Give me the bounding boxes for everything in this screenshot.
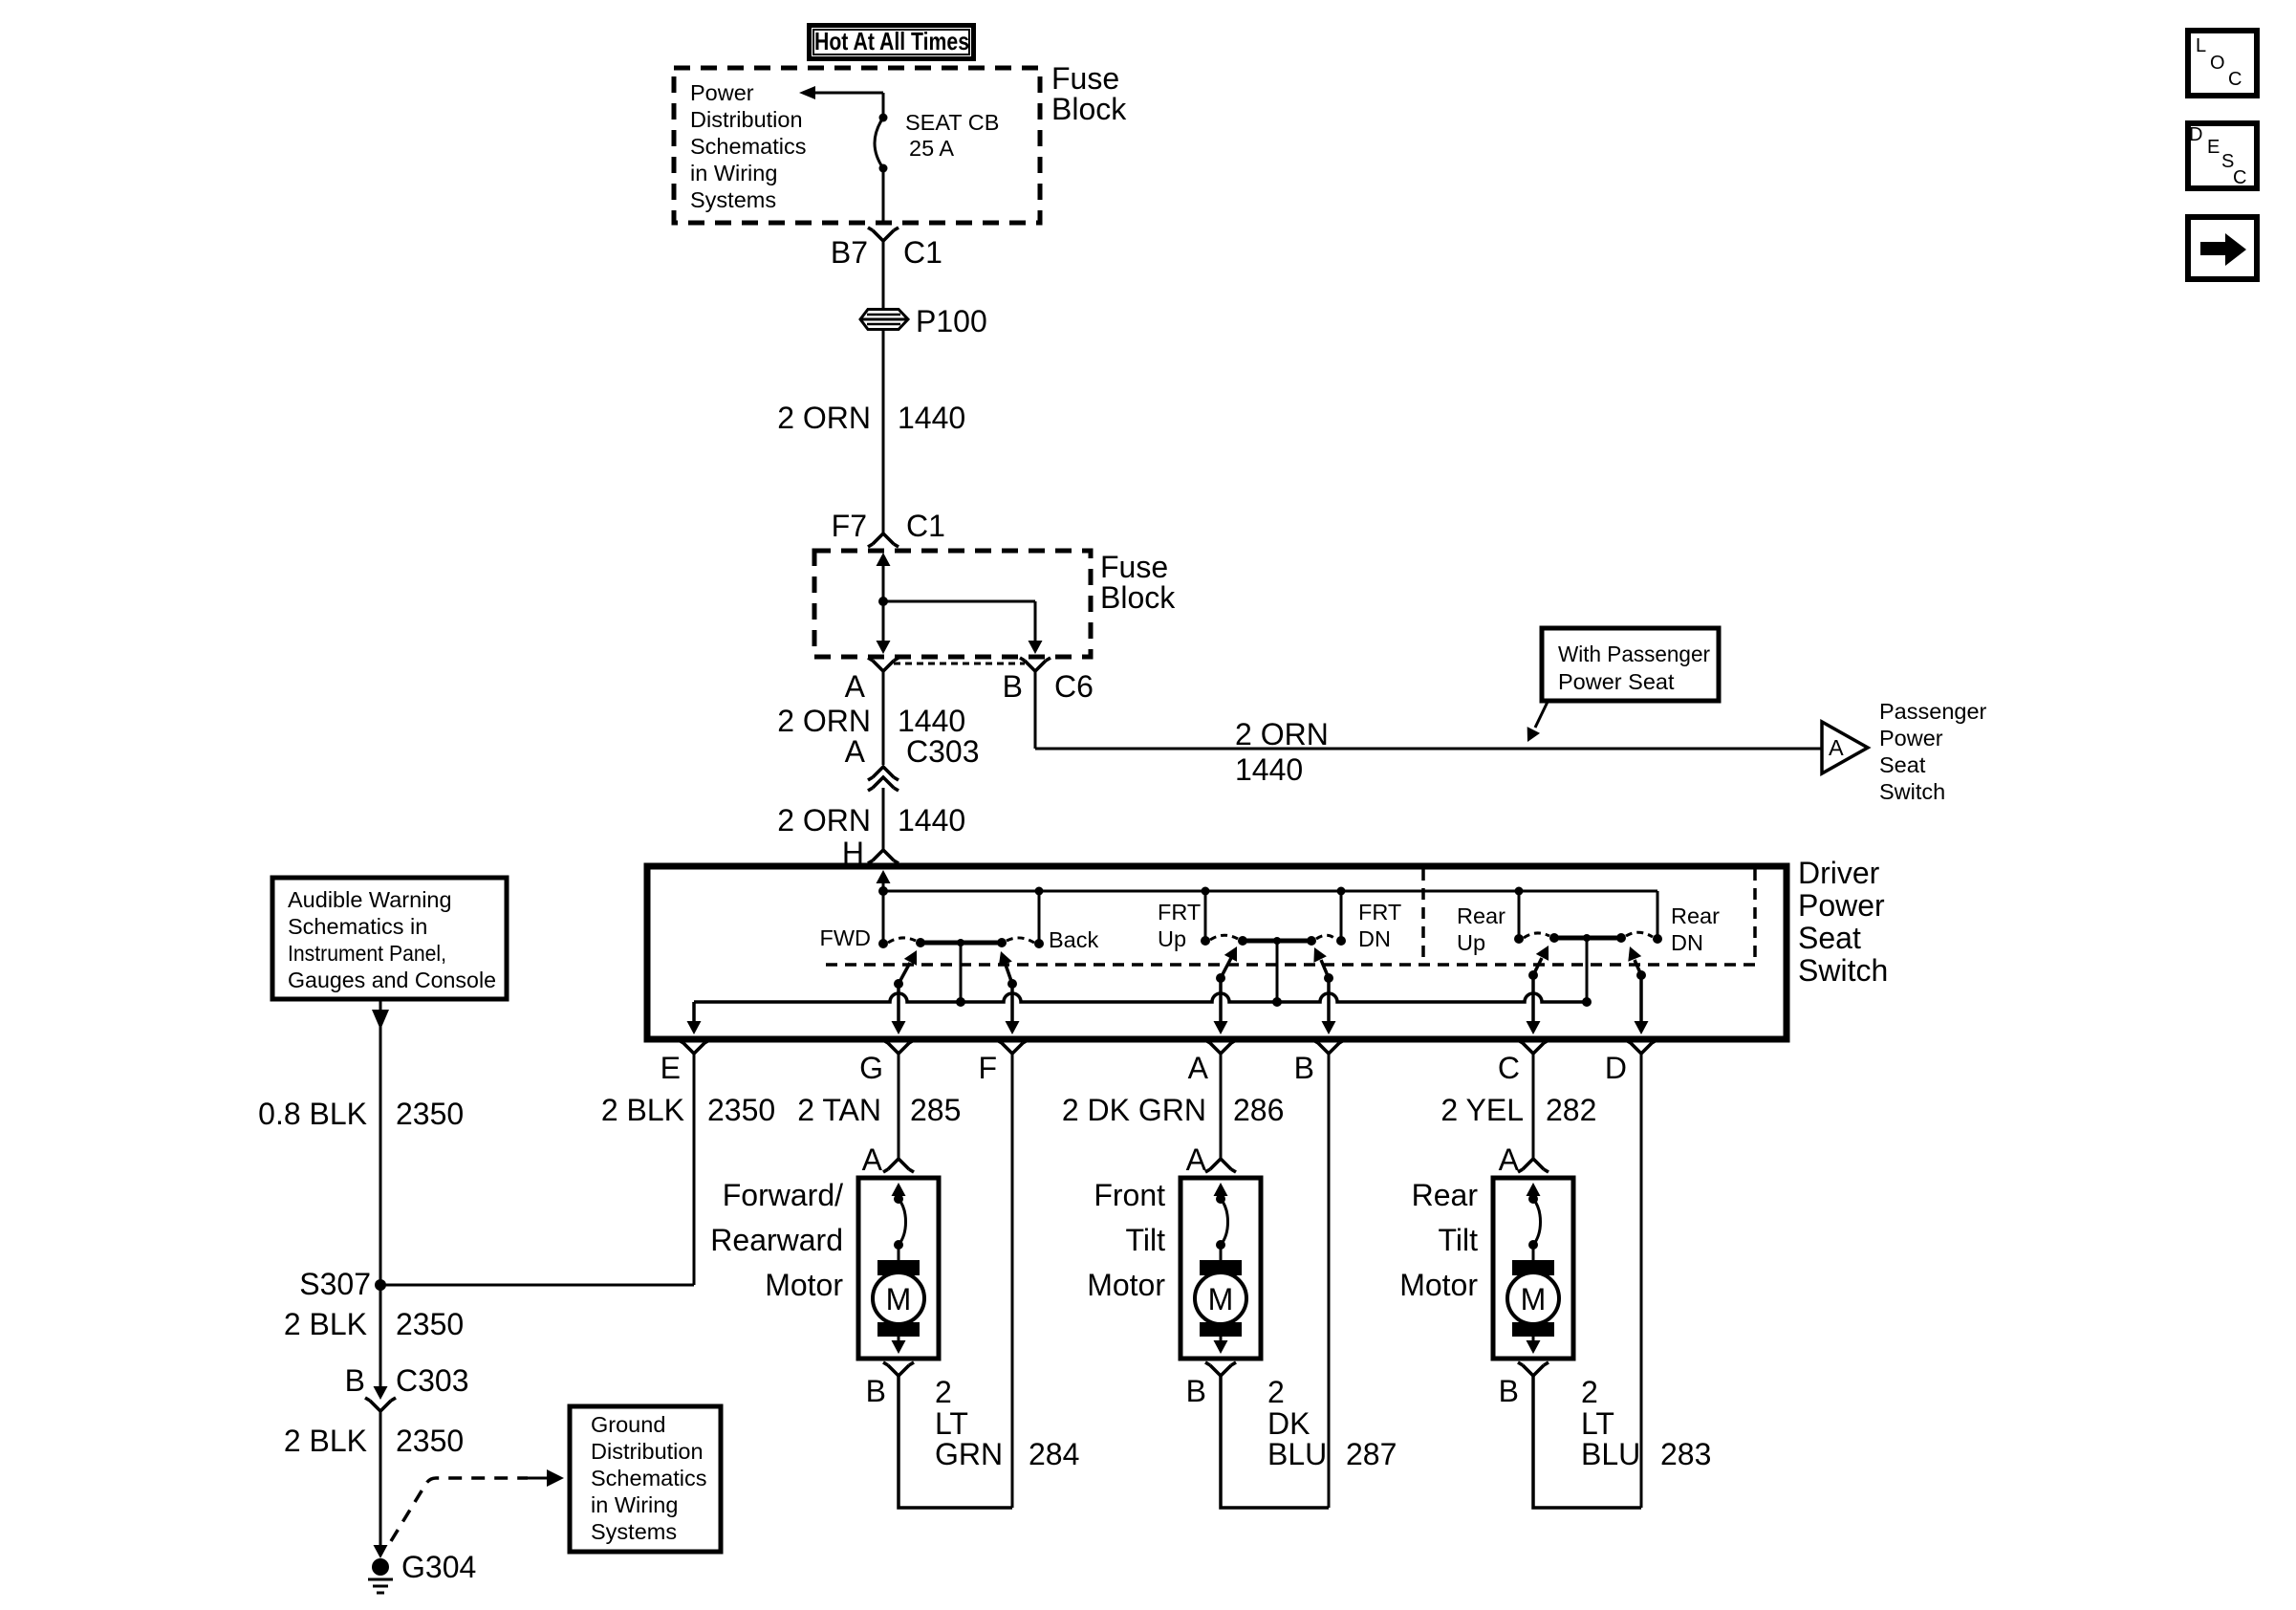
svg-text:2350: 2350 (396, 1424, 464, 1458)
svg-text:283: 283 (1660, 1437, 1711, 1471)
svg-text:2 ORN: 2 ORN (777, 704, 871, 738)
svg-text:B: B (345, 1363, 365, 1398)
svg-text:0.8 BLK: 0.8 BLK (258, 1097, 367, 1131)
svg-text:D: D (1605, 1051, 1627, 1085)
svg-text:G: G (859, 1051, 883, 1085)
svg-text:B: B (1003, 669, 1023, 704)
svg-text:SEAT CB: SEAT CB (905, 110, 999, 135)
svg-text:2 YEL: 2 YEL (1440, 1093, 1524, 1127)
svg-text:With Passenger: With Passenger (1558, 642, 1710, 666)
svg-text:2 ORN: 2 ORN (777, 401, 871, 435)
svg-text:Driver: Driver (1798, 856, 1880, 890)
svg-text:2 ORN: 2 ORN (777, 803, 871, 838)
svg-text:BLU: BLU (1581, 1437, 1640, 1471)
svg-text:DN: DN (1358, 926, 1391, 951)
svg-text:C1: C1 (906, 509, 945, 543)
svg-text:Tilt: Tilt (1439, 1223, 1479, 1257)
svg-text:1440: 1440 (898, 704, 965, 738)
svg-text:2: 2 (935, 1375, 952, 1409)
svg-text:Distribution: Distribution (690, 107, 803, 132)
svg-text:2350: 2350 (396, 1307, 464, 1341)
svg-text:D: D (2189, 124, 2202, 145)
svg-text:C: C (1498, 1051, 1520, 1085)
svg-text:Rear: Rear (1457, 903, 1505, 928)
svg-text:LT: LT (1581, 1406, 1614, 1441)
svg-text:Rear: Rear (1412, 1178, 1479, 1212)
svg-text:F: F (978, 1051, 997, 1085)
svg-text:Power: Power (1879, 726, 1943, 751)
svg-text:DK: DK (1267, 1406, 1310, 1441)
svg-text:B: B (1186, 1374, 1206, 1408)
svg-text:Power: Power (690, 80, 754, 105)
svg-text:Motor: Motor (1087, 1268, 1165, 1302)
svg-text:C303: C303 (906, 734, 980, 769)
svg-text:1440: 1440 (1235, 752, 1303, 787)
svg-text:2: 2 (1581, 1375, 1598, 1409)
svg-text:F7: F7 (832, 509, 867, 543)
svg-text:2 BLK: 2 BLK (284, 1307, 367, 1341)
svg-text:S307: S307 (299, 1267, 371, 1301)
svg-text:G304: G304 (401, 1550, 476, 1584)
svg-text:2 DK GRN: 2 DK GRN (1062, 1093, 1206, 1127)
svg-text:B: B (866, 1374, 886, 1408)
svg-text:FWD: FWD (819, 925, 871, 950)
svg-text:25 A: 25 A (909, 136, 954, 161)
svg-text:Seat: Seat (1879, 752, 1926, 777)
svg-text:2 TAN: 2 TAN (797, 1093, 881, 1127)
svg-text:Fuse: Fuse (1051, 61, 1119, 96)
svg-text:C: C (2228, 69, 2242, 90)
svg-text:C6: C6 (1054, 669, 1094, 704)
svg-text:Audible Warning: Audible Warning (288, 887, 452, 912)
svg-text:in Wiring: in Wiring (690, 161, 777, 185)
svg-text:286: 286 (1233, 1093, 1284, 1127)
svg-text:285: 285 (910, 1093, 961, 1127)
svg-text:C: C (2233, 167, 2246, 188)
svg-text:Instrument Panel,: Instrument Panel, (288, 941, 446, 966)
svg-text:Fuse: Fuse (1100, 550, 1168, 584)
svg-text:Motor: Motor (765, 1268, 843, 1302)
svg-text:Block: Block (1100, 580, 1176, 615)
svg-text:Switch: Switch (1879, 779, 1945, 804)
svg-text:1440: 1440 (898, 401, 965, 435)
svg-text:1440: 1440 (898, 803, 965, 838)
svg-text:A: A (845, 669, 866, 704)
svg-text:A: A (1499, 1142, 1520, 1177)
svg-text:287: 287 (1346, 1437, 1397, 1471)
svg-text:A: A (862, 1142, 883, 1177)
svg-text:2 BLK: 2 BLK (601, 1093, 684, 1127)
svg-text:C303: C303 (396, 1363, 469, 1398)
svg-text:2 BLK: 2 BLK (284, 1424, 367, 1458)
svg-text:Seat: Seat (1798, 921, 1861, 955)
svg-text:P100: P100 (916, 304, 987, 338)
svg-text:Systems: Systems (690, 187, 776, 212)
svg-text:DN: DN (1671, 930, 1703, 955)
svg-text:Schematics: Schematics (690, 134, 806, 159)
svg-text:Block: Block (1051, 92, 1127, 126)
svg-text:Up: Up (1158, 926, 1186, 951)
svg-text:284: 284 (1029, 1437, 1079, 1471)
svg-text:C1: C1 (903, 235, 942, 270)
svg-text:Schematics in: Schematics in (288, 914, 427, 939)
svg-text:A: A (1186, 1142, 1207, 1177)
svg-text:Power: Power (1798, 888, 1885, 923)
svg-text:Rearward: Rearward (710, 1223, 843, 1257)
svg-text:Motor: Motor (1399, 1268, 1478, 1302)
svg-text:2: 2 (1267, 1375, 1285, 1409)
svg-text:A: A (1188, 1051, 1209, 1085)
svg-text:E: E (661, 1051, 681, 1085)
svg-text:Systems: Systems (591, 1519, 677, 1544)
svg-text:2350: 2350 (396, 1097, 464, 1131)
svg-text:Distribution: Distribution (591, 1439, 704, 1464)
svg-text:Switch: Switch (1798, 953, 1888, 988)
svg-text:B7: B7 (831, 235, 868, 270)
svg-text:Gauges and Console: Gauges and Console (288, 968, 496, 992)
svg-text:B: B (1499, 1374, 1519, 1408)
svg-text:BLU: BLU (1267, 1437, 1327, 1471)
svg-text:O: O (2210, 53, 2225, 74)
svg-text:282: 282 (1546, 1093, 1596, 1127)
svg-text:E: E (2207, 137, 2220, 158)
svg-text:Front: Front (1094, 1178, 1165, 1212)
svg-text:2 ORN: 2 ORN (1235, 717, 1329, 751)
svg-text:Ground: Ground (591, 1412, 665, 1437)
svg-text:Hot At All Times: Hot At All Times (814, 27, 969, 55)
svg-text:Forward/: Forward/ (723, 1178, 843, 1212)
svg-text:B: B (1294, 1051, 1314, 1085)
svg-text:in Wiring: in Wiring (591, 1492, 678, 1517)
svg-text:Power Seat: Power Seat (1558, 669, 1675, 694)
svg-text:Tilt: Tilt (1126, 1223, 1166, 1257)
svg-text:Passenger: Passenger (1879, 699, 1987, 724)
svg-text:A: A (845, 734, 866, 769)
svg-text:Schematics: Schematics (591, 1466, 706, 1490)
svg-text:Back: Back (1049, 927, 1098, 952)
svg-text:L: L (2196, 35, 2206, 56)
svg-text:Up: Up (1457, 930, 1485, 955)
svg-text:2350: 2350 (707, 1093, 775, 1127)
svg-text:Rear: Rear (1671, 903, 1720, 928)
svg-text:A: A (1829, 735, 1844, 760)
svg-text:GRN: GRN (935, 1437, 1003, 1471)
svg-text:LT: LT (935, 1406, 968, 1441)
svg-text:FRT: FRT (1358, 900, 1401, 925)
svg-text:FRT: FRT (1158, 900, 1201, 925)
